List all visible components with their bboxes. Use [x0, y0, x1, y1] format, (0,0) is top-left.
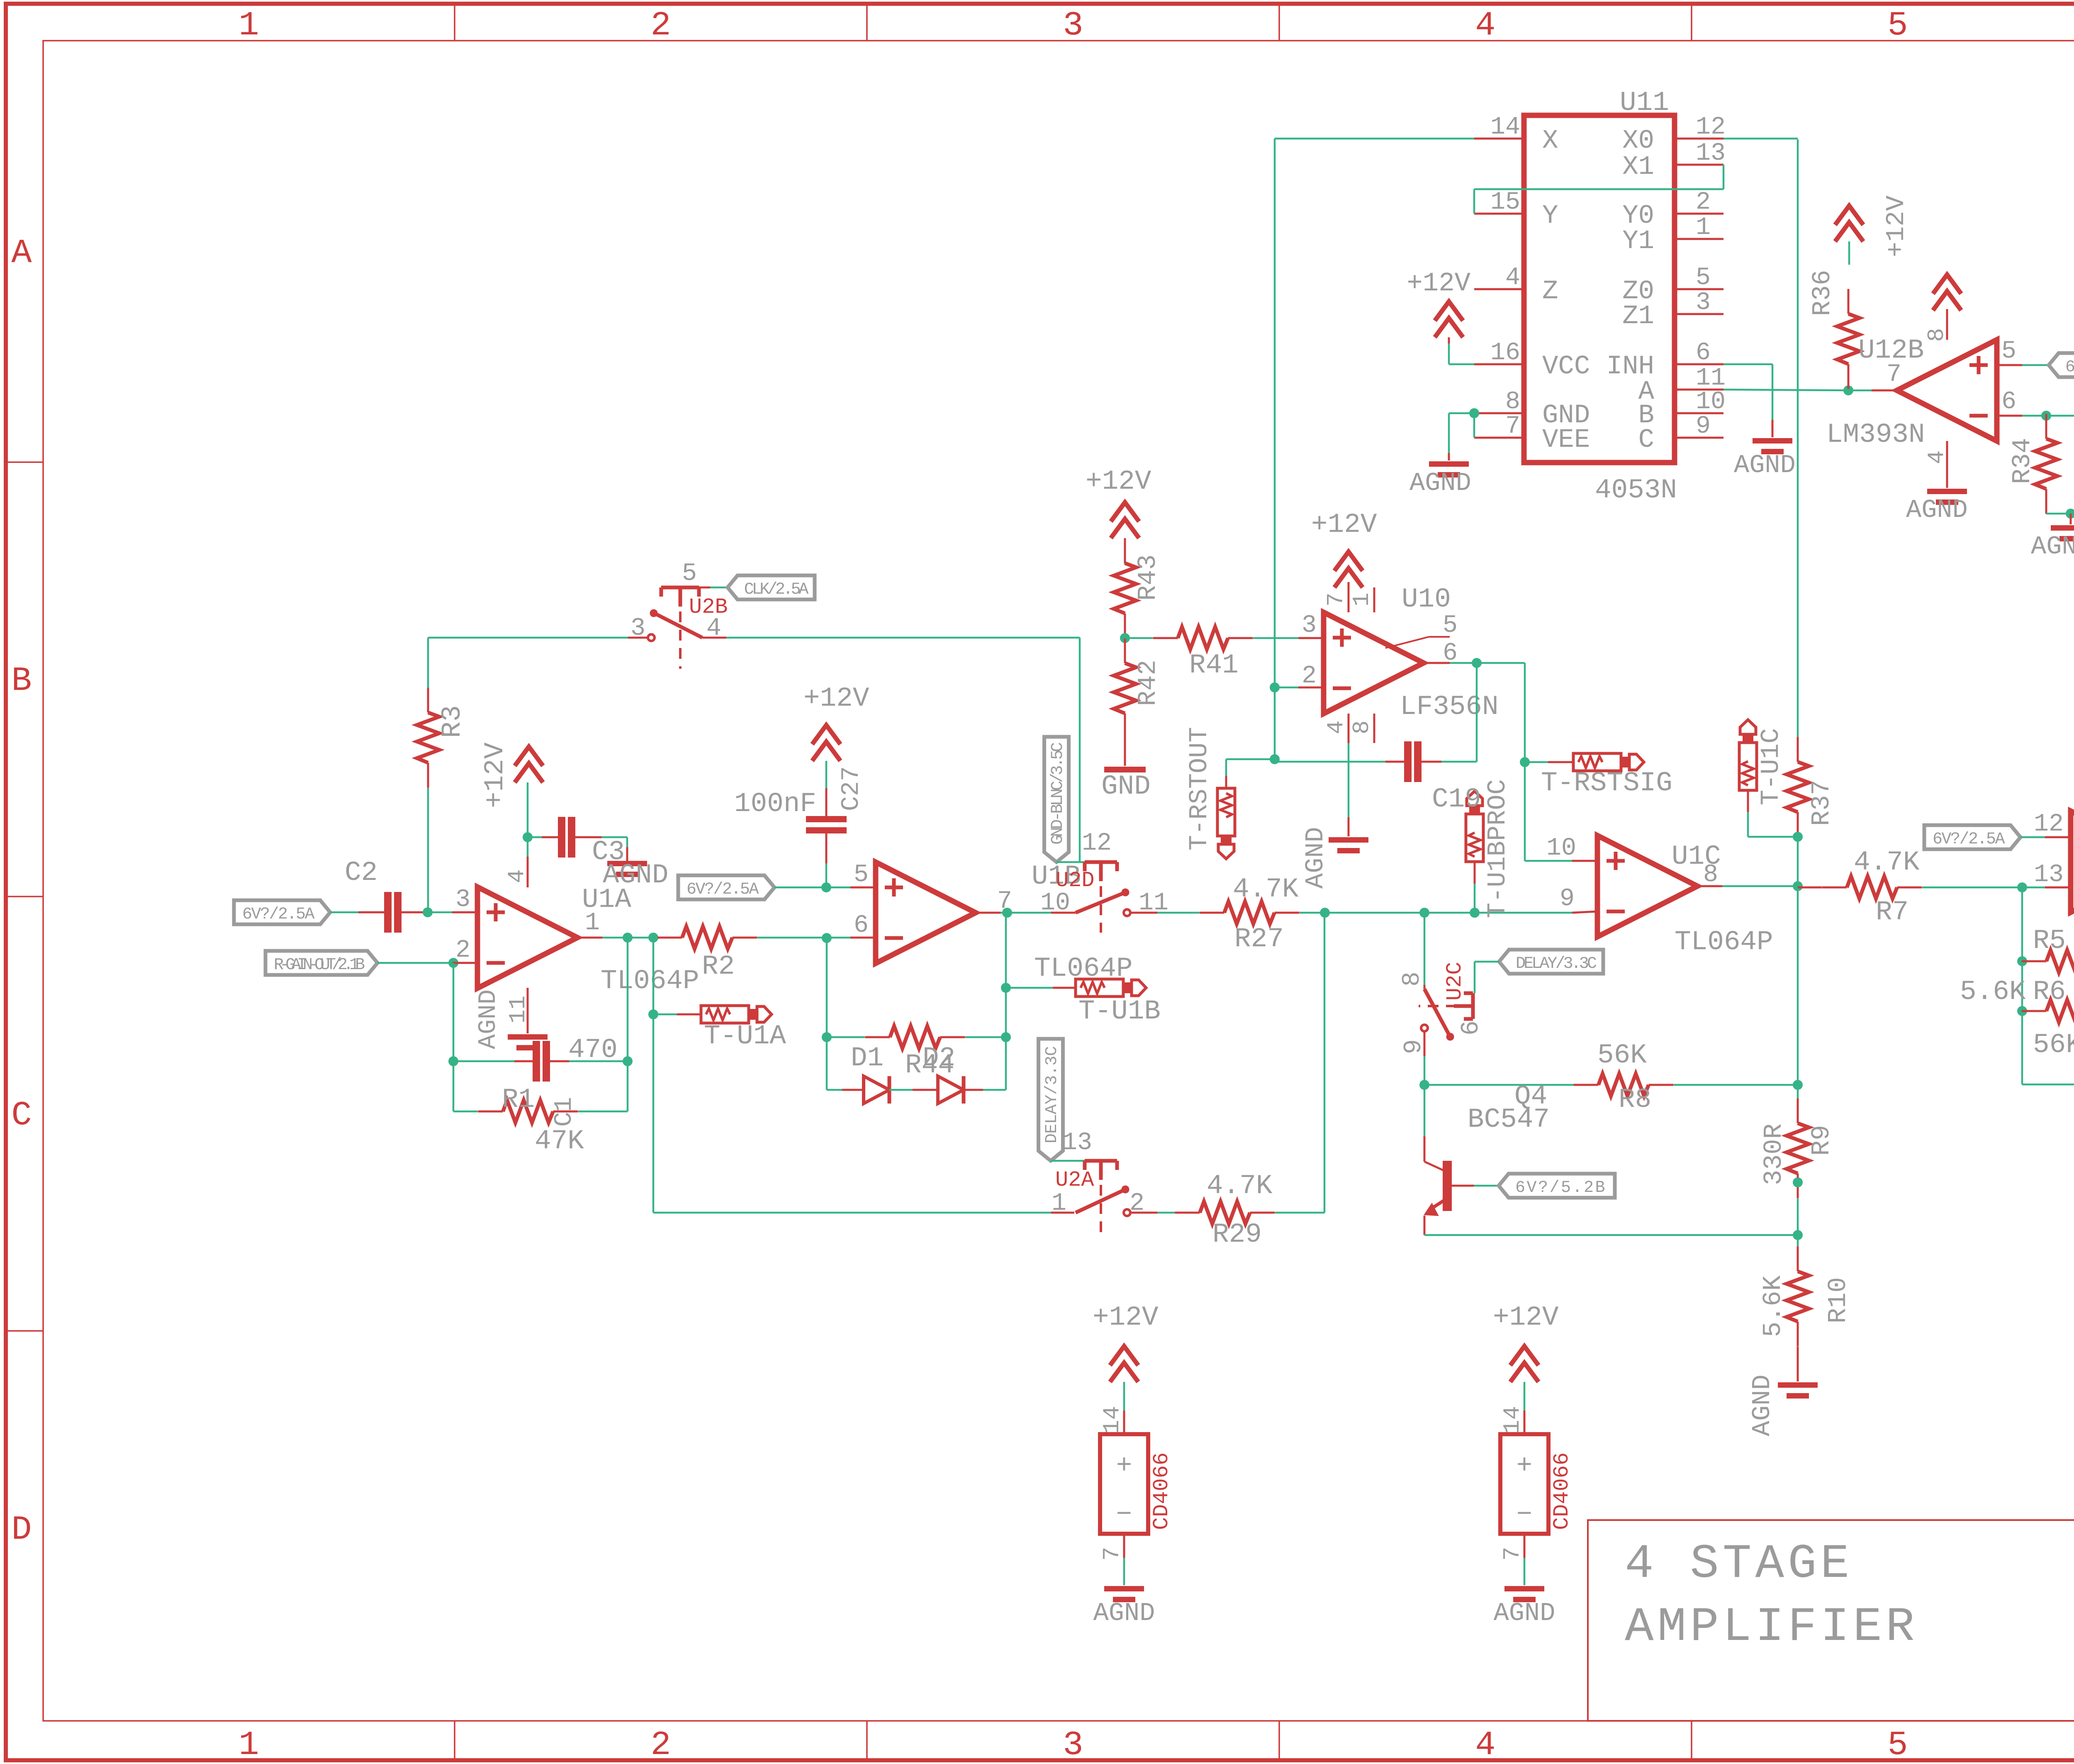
svg-text:+: + [1116, 1451, 1132, 1481]
svg-text:12: 12 [1696, 113, 1726, 141]
svg-text:C: C [1638, 425, 1654, 455]
svg-text:U10: U10 [1402, 584, 1451, 615]
svg-text:4: 4 [1475, 6, 1495, 45]
svg-text:5.6K: 5.6K [1758, 1275, 1788, 1337]
svg-text:1: 1 [585, 909, 600, 937]
svg-text:2: 2 [1696, 188, 1711, 217]
svg-text:3: 3 [1696, 289, 1711, 317]
svg-text:TL064P: TL064P [601, 965, 699, 997]
svg-text:C1: C1 [550, 1097, 579, 1127]
svg-text:CD4066: CD4066 [1149, 1452, 1174, 1530]
svg-text:+12V: +12V [1311, 509, 1377, 540]
svg-text:5: 5 [1887, 6, 1908, 45]
svg-text:56K: 56K [1597, 1040, 1647, 1071]
svg-text:R43: R43 [1133, 554, 1163, 601]
svg-text:6: 6 [1696, 339, 1711, 367]
svg-text:T-RSTSIG: T-RSTSIG [1541, 767, 1672, 799]
svg-text:9: 9 [1560, 885, 1575, 913]
svg-text:4: 4 [1475, 1726, 1495, 1764]
svg-text:47K: 47K [535, 1126, 584, 1157]
svg-text:X0: X0 [1622, 126, 1654, 156]
svg-text:8: 8 [1398, 972, 1426, 987]
svg-text:−: − [1116, 1500, 1132, 1530]
svg-text:AGND: AGND [1409, 468, 1471, 498]
svg-text:AGND: AGND [1093, 1598, 1155, 1628]
svg-text:AGND: AGND [475, 989, 503, 1049]
svg-text:4.7K: 4.7K [1854, 847, 1920, 878]
svg-text:DELAY/3.3C: DELAY/3.3C [1516, 955, 1597, 973]
svg-text:R6: R6 [2033, 976, 2066, 1007]
svg-text:7: 7 [1505, 412, 1520, 441]
svg-text:10: 10 [1696, 388, 1726, 416]
svg-text:4.7K: 4.7K [1207, 1170, 1273, 1201]
svg-text:6: 6 [2001, 388, 2016, 416]
svg-text:R42: R42 [1133, 660, 1163, 706]
svg-text:4 STAGE: 4 STAGE [1625, 1537, 1853, 1591]
svg-text:15: 15 [1490, 188, 1520, 217]
svg-text:AMPLIFIER: AMPLIFIER [1625, 1600, 1918, 1654]
svg-text:4.7K: 4.7K [1233, 874, 1299, 905]
svg-text:14: 14 [1490, 113, 1520, 141]
svg-text:56K: 56K [2033, 1029, 2074, 1060]
svg-text:AGND: AGND [2031, 532, 2074, 561]
svg-text:14: 14 [1099, 1406, 1125, 1434]
svg-text:7: 7 [1887, 361, 1901, 389]
svg-text:10: 10 [1040, 889, 1070, 917]
svg-text:R27: R27 [1234, 923, 1284, 955]
svg-text:AGND: AGND [1494, 1598, 1555, 1628]
svg-text:R3: R3 [437, 705, 468, 738]
svg-text:X: X [1542, 126, 1558, 156]
svg-text:+12V: +12V [1882, 195, 1911, 257]
svg-text:4: 4 [1505, 264, 1520, 292]
svg-text:5: 5 [682, 560, 697, 588]
svg-text:CLK/2.5A: CLK/2.5A [744, 580, 809, 599]
svg-text:8: 8 [1505, 388, 1520, 416]
svg-text:R7: R7 [1876, 897, 1908, 928]
svg-text:U2C: U2C [1443, 962, 1467, 1001]
svg-text:11: 11 [505, 996, 531, 1023]
svg-text:+12V: +12V [803, 683, 869, 714]
svg-text:LF356N: LF356N [1400, 691, 1499, 722]
svg-text:4053N: 4053N [1595, 475, 1677, 506]
svg-text:AGND: AGND [1734, 451, 1796, 480]
svg-text:AGND: AGND [1748, 1374, 1777, 1436]
svg-text:U11: U11 [1620, 87, 1669, 118]
svg-text:11: 11 [1139, 889, 1168, 917]
svg-text:2: 2 [1302, 662, 1317, 690]
svg-text:R10: R10 [1823, 1277, 1853, 1323]
svg-text:CD4066: CD4066 [1550, 1452, 1574, 1530]
svg-text:12: 12 [1082, 829, 1112, 858]
svg-text:+12V: +12V [1093, 1302, 1159, 1333]
svg-text:R-GAIN-OUT/2.1B: R-GAIN-OUT/2.1B [274, 956, 365, 975]
svg-text:1: 1 [1349, 592, 1375, 607]
svg-text:T-U1B: T-U1B [1078, 996, 1161, 1027]
svg-text:+12V: +12V [1493, 1302, 1559, 1333]
svg-text:Z: Z [1542, 277, 1558, 307]
svg-text:8: 8 [1923, 328, 1950, 342]
svg-text:D: D [11, 1511, 32, 1549]
svg-text:1: 1 [1696, 214, 1711, 242]
svg-text:2: 2 [650, 6, 671, 45]
svg-text:100nF: 100nF [734, 788, 816, 819]
svg-text:5: 5 [1443, 612, 1458, 640]
svg-text:13: 13 [1062, 1129, 1092, 1157]
svg-text:R8: R8 [1619, 1084, 1651, 1115]
svg-text:TL064P: TL064P [1675, 926, 1773, 958]
svg-text:AGND: AGND [1301, 827, 1330, 889]
svg-text:R9: R9 [1807, 1125, 1836, 1156]
svg-text:A: A [11, 234, 32, 273]
svg-text:4: 4 [1323, 720, 1349, 734]
svg-text:R29: R29 [1212, 1219, 1262, 1250]
svg-text:B: B [11, 662, 32, 700]
svg-text:2: 2 [1130, 1189, 1144, 1218]
svg-text:3: 3 [1063, 6, 1083, 45]
svg-text:T-U1A: T-U1A [704, 1021, 786, 1052]
svg-text:330R: 330R [1759, 1123, 1789, 1185]
svg-text:6: 6 [1457, 1021, 1485, 1035]
svg-text:6: 6 [1443, 639, 1458, 668]
svg-text:5.6K: 5.6K [1960, 976, 2026, 1007]
svg-text:10: 10 [1546, 834, 1576, 863]
svg-text:13: 13 [2034, 861, 2064, 889]
svg-text:C: C [11, 1096, 32, 1135]
svg-text:R37: R37 [1807, 780, 1836, 826]
svg-text:3: 3 [455, 886, 470, 914]
svg-text:2: 2 [650, 1726, 671, 1764]
svg-text:6V?/5.2B: 6V?/5.2B [1515, 1179, 1607, 1197]
svg-text:U2A: U2A [1055, 1168, 1094, 1192]
svg-text:1: 1 [239, 1726, 259, 1764]
svg-text:7: 7 [1499, 1547, 1526, 1561]
svg-text:Y1: Y1 [1622, 227, 1654, 256]
svg-text:8: 8 [1703, 861, 1718, 889]
svg-text:6V?/2.5A: 6V?/2.5A [1933, 830, 2005, 849]
svg-text:6V?/5.2B: 6V?/5.2B [2065, 358, 2074, 377]
svg-text:2: 2 [455, 936, 470, 965]
svg-text:GND: GND [1101, 771, 1151, 802]
svg-text:+12V: +12V [1407, 269, 1470, 299]
svg-text:6V?/2.5A: 6V?/2.5A [686, 880, 759, 899]
svg-text:3: 3 [1063, 1726, 1083, 1764]
svg-text:5: 5 [854, 861, 869, 889]
svg-text:5: 5 [2001, 337, 2016, 365]
svg-text:7: 7 [1323, 592, 1349, 607]
svg-text:VCC: VCC [1542, 352, 1590, 382]
svg-text:1: 1 [1052, 1189, 1066, 1218]
svg-text:Y: Y [1542, 201, 1558, 231]
svg-text:6: 6 [854, 911, 869, 940]
svg-text:5: 5 [1887, 1726, 1908, 1764]
svg-text:R36: R36 [1808, 270, 1837, 316]
svg-text:3: 3 [1302, 612, 1317, 640]
svg-text:R5: R5 [2033, 925, 2066, 956]
svg-text:+12V: +12V [1086, 466, 1151, 497]
svg-text:X1: X1 [1622, 152, 1654, 182]
svg-text:BC547: BC547 [1468, 1104, 1550, 1135]
svg-text:AGND: AGND [1906, 495, 1968, 525]
svg-text:C27: C27 [837, 766, 866, 811]
svg-text:14: 14 [1499, 1406, 1526, 1434]
svg-text:R2: R2 [702, 951, 735, 982]
svg-text:−: − [1517, 1500, 1532, 1530]
svg-text:16: 16 [1490, 339, 1520, 367]
svg-text:3: 3 [630, 614, 645, 643]
svg-text:R1: R1 [502, 1084, 535, 1115]
svg-text:4: 4 [1923, 450, 1950, 464]
svg-text:C19: C19 [1432, 784, 1481, 815]
svg-text:T-U1C: T-U1C [1756, 728, 1786, 805]
svg-text:D2: D2 [923, 1043, 955, 1074]
svg-text:D1: D1 [851, 1043, 884, 1074]
svg-text:7: 7 [1099, 1547, 1125, 1561]
svg-text:6V?/2.5A: 6V?/2.5A [242, 905, 315, 924]
svg-text:13: 13 [1696, 139, 1726, 168]
svg-text:1: 1 [239, 6, 259, 45]
svg-text:12: 12 [2034, 810, 2064, 838]
svg-text:9: 9 [1696, 412, 1711, 441]
svg-text:R41: R41 [1189, 650, 1239, 681]
svg-text:R34: R34 [2008, 438, 2037, 484]
svg-text:4: 4 [504, 869, 530, 883]
svg-text:470: 470 [568, 1034, 618, 1065]
svg-text:T-U1BPROC: T-U1BPROC [1483, 779, 1512, 918]
svg-text:VEE: VEE [1542, 425, 1590, 455]
svg-text:8: 8 [1349, 720, 1375, 734]
svg-text:DELAY/3.3C: DELAY/3.3C [1043, 1046, 1061, 1143]
svg-text:4: 4 [706, 614, 721, 643]
svg-text:AGND: AGND [603, 860, 668, 891]
svg-text:9: 9 [1400, 1039, 1428, 1054]
svg-text:+12V: +12V [480, 742, 511, 808]
svg-text:5: 5 [1696, 264, 1711, 292]
svg-text:C2: C2 [345, 857, 377, 888]
svg-text:T-RSTOUT: T-RSTOUT [1185, 727, 1214, 850]
svg-text:LM393N: LM393N [1826, 419, 1925, 450]
svg-text:GND-BLNC/3.5C: GND-BLNC/3.5C [1049, 743, 1067, 845]
svg-text:Z1: Z1 [1622, 302, 1654, 331]
svg-text:+: + [1517, 1451, 1532, 1481]
